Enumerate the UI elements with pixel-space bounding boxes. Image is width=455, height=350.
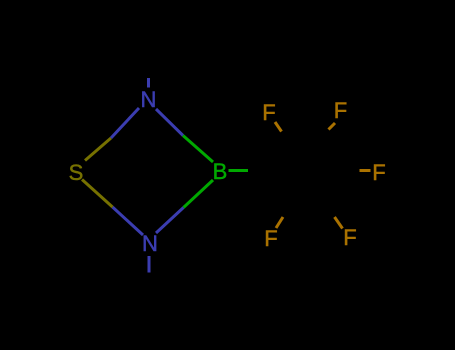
- svg-text:F: F: [264, 226, 277, 251]
- wire: C-F bond stub bottom-left: [276, 217, 283, 228]
- svg-text:S: S: [69, 160, 84, 185]
- wire: C-F bond stub top-right: [329, 123, 336, 130]
- wire: N2 methyl bond stub: [148, 256, 151, 273]
- svg-text:B: B: [213, 159, 228, 184]
- wire: bond S-N1 nitrogen half: [111, 108, 139, 138]
- wire: C-F bond stub bottom-right: [335, 217, 343, 229]
- wire: bond B-N2 boron half: [184, 180, 214, 208]
- wire: bond S-N1 sulfur half: [85, 138, 111, 161]
- wire: bond B-C(aryl) boron half: [229, 169, 249, 172]
- wire: bond N2-S sulfur half: [82, 180, 113, 208]
- wire: bond N1-B boron half: [183, 136, 213, 163]
- wire: bond N1-B boron nitrogen half: [156, 109, 183, 136]
- wire: bond B-N2 nitrogen half: [156, 208, 184, 234]
- wire: C-F bond stub right: [360, 169, 371, 172]
- wire: C-F bond stub top-left: [275, 122, 282, 132]
- wire: N1 methyl bond stub: [147, 78, 150, 88]
- wire: bond N2-S nitrogen half: [113, 207, 144, 235]
- svg-text:F: F: [334, 98, 347, 123]
- svg-text:F: F: [262, 100, 275, 125]
- svg-text:N: N: [141, 87, 157, 112]
- svg-text:F: F: [343, 225, 356, 250]
- svg-text:N: N: [142, 231, 158, 256]
- svg-text:F: F: [372, 160, 385, 185]
